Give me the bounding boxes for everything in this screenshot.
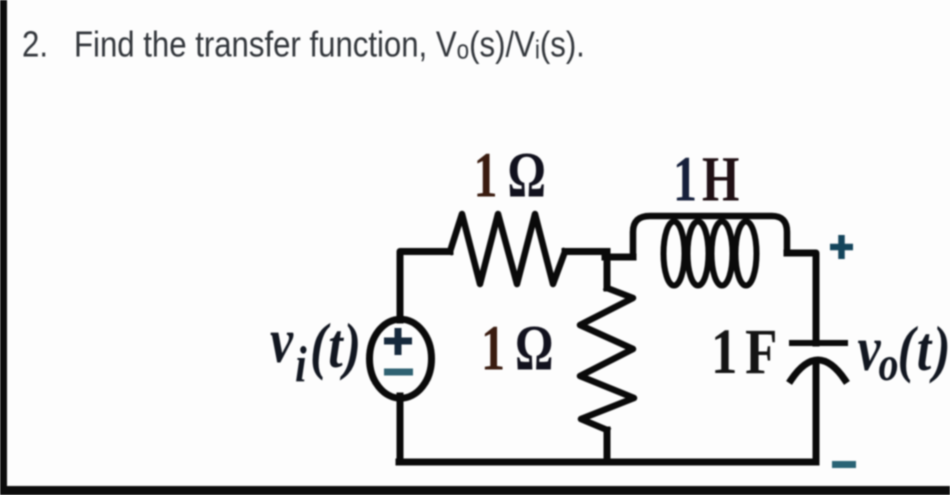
output plus mark (830, 235, 853, 259)
value label: 1 ohm for R1 (474, 140, 546, 212)
value label: 1 F for C1 (711, 315, 777, 387)
voltage source plus mark (384, 328, 412, 355)
svg-text:2.: 2. (22, 26, 48, 66)
svg-text:1Ω: 1Ω (481, 313, 553, 385)
wire: R1 to node A (565, 248, 606, 255)
output minus mark (832, 461, 856, 468)
wire: L1 to top-right corner down to C1 (787, 253, 816, 343)
inductor L1 loop 3 (712, 222, 733, 286)
value label: 1 ohm for R2 (481, 313, 553, 385)
node A junction lead down (604, 252, 611, 289)
problem statement text (22, 26, 585, 66)
resistor R1 1 ohm (series, horizontal zigzag) (450, 214, 565, 284)
voltage source V1 circle (370, 319, 432, 398)
svg-text:1F: 1F (711, 315, 777, 387)
resistor R2 1 ohm (shunt, vertical zigzag) (580, 288, 634, 430)
svg-text:vo(t): vo(t) (858, 313, 950, 391)
capacitor C1 top plate (792, 340, 845, 346)
wire: source top to R1 (400, 252, 450, 321)
inductor L1 1H body (humps) (633, 216, 787, 257)
inductor L1 loop 2 (688, 222, 709, 286)
inductor L1 loop 4 (736, 222, 757, 286)
capacitor C1 bottom plate (curved) (791, 360, 845, 380)
wire: node A to inductor L1 (605, 254, 633, 261)
wire: C1 to bottom rail (813, 362, 820, 462)
voltage source minus mark (384, 369, 413, 376)
inductor L1 loop 1 (664, 222, 685, 286)
svg-text:1H: 1H (673, 144, 739, 216)
value label: 1 H for L1 (673, 144, 739, 216)
svg-text:vi(t): vi(t) (270, 305, 362, 393)
svg-text:1Ω: 1Ω (474, 140, 546, 212)
label vo(t) output voltage (858, 313, 950, 391)
wire: R2 bottom lead to bottom rail (604, 430, 611, 462)
wire: bottom rail (399, 459, 816, 466)
svg-text:Find the transfer function, Vo: Find the transfer function, Vo(s)/Vi(s). (74, 26, 585, 66)
wire: source bottom lead (397, 396, 404, 462)
label vi(t) input voltage (270, 305, 362, 393)
